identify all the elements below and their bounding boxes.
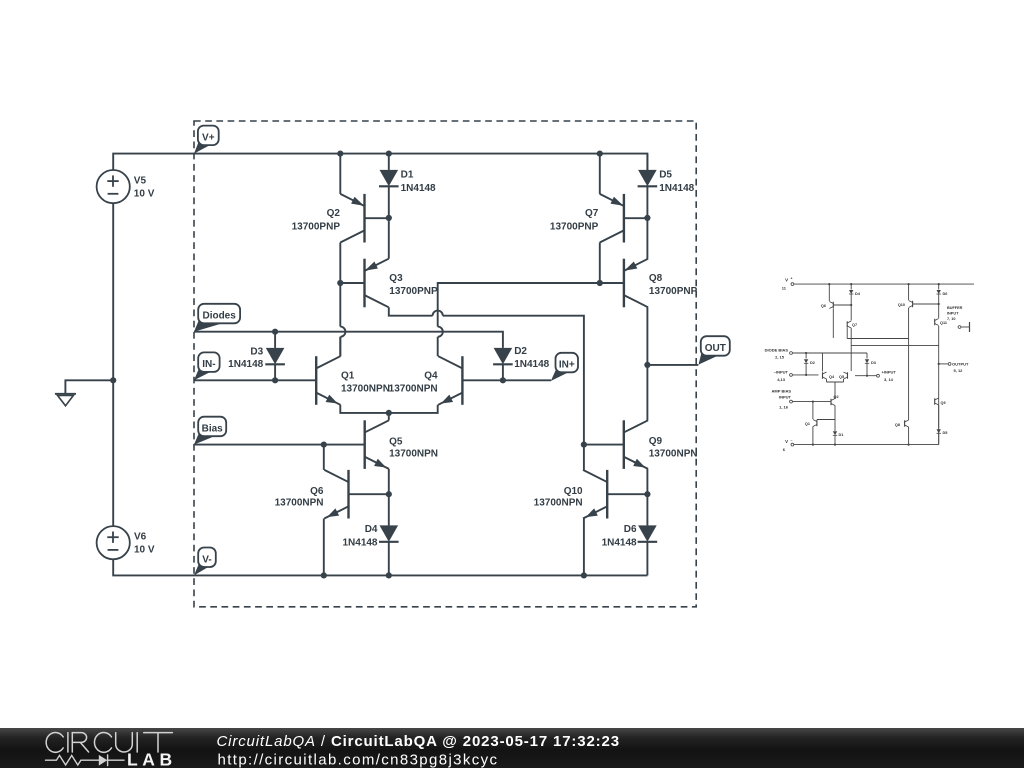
wire Q4 collector to Q8 base <box>437 337 439 356</box>
svg-text:AMP BIAS: AMP BIAS <box>772 389 792 394</box>
wire Q8 collector / output column <box>646 307 648 365</box>
voltage source V6 <box>97 526 130 559</box>
wire Q1 emitter <box>340 405 389 413</box>
svg-text:–: – <box>791 438 793 442</box>
diode D3 <box>274 332 276 348</box>
svg-text:http://circuitlab.com/cn83pg8j: http://circuitlab.com/cn83pg8j3kcyc <box>218 752 499 768</box>
node Q3 base junction <box>337 280 343 286</box>
wire Q1 collector stub <box>339 337 341 356</box>
transistor Q2 <box>363 194 365 243</box>
node OUT <box>644 362 650 368</box>
wire Q1 collector column <box>339 283 341 327</box>
wire Q8 base <box>600 282 624 284</box>
node D3-IN- <box>272 377 278 383</box>
wire Q7 emitter <box>599 154 601 194</box>
svg-text:CircuitLabQA / CircuitLabQA @: CircuitLabQA / CircuitLabQA @ 2023-05-17… <box>217 733 620 750</box>
wire Q4 emitter <box>389 405 438 413</box>
svg-text:LAB: LAB <box>127 750 177 768</box>
inset diode bias <box>790 352 793 355</box>
node Q9e-Q10b-D6 <box>644 491 650 497</box>
node emitter bus <box>386 410 392 416</box>
wire Q8 emitter <box>646 218 648 259</box>
node Q6e-bus <box>321 572 327 578</box>
svg-text:Q2: Q2 <box>834 395 839 399</box>
inset +input <box>877 374 880 377</box>
inset output <box>938 363 940 365</box>
wire Q5 emitter <box>388 469 390 494</box>
node ground tap <box>110 377 116 383</box>
wire Diodes line <box>194 332 503 348</box>
svg-text:+INPUT: +INPUT <box>882 370 897 375</box>
wire Q9 emitter <box>646 469 648 494</box>
transistor Q4 <box>461 356 463 405</box>
svg-text:V: V <box>785 439 788 444</box>
transistor Q10 <box>606 470 608 519</box>
inset Q6 <box>828 284 830 301</box>
inset -input <box>790 374 793 377</box>
wire IN+ <box>462 379 551 381</box>
inset Q4 collector riser <box>822 353 824 372</box>
inset V- rail <box>791 443 794 446</box>
transistor Q1 <box>315 356 317 405</box>
svg-text:V: V <box>785 278 788 283</box>
wire V+ rail <box>113 154 647 171</box>
svg-text:Q5: Q5 <box>839 375 844 379</box>
svg-text:DIODE BIAS: DIODE BIAS <box>765 348 789 353</box>
inset Q10 <box>908 284 910 300</box>
svg-text:D6: D6 <box>943 292 948 296</box>
wire Q6 collector <box>323 445 325 470</box>
wire V5 to V6 <box>112 203 114 526</box>
svg-text:Q7: Q7 <box>852 323 857 327</box>
wire Q7 base <box>624 217 648 219</box>
node D4-bus <box>386 572 392 578</box>
node label V- <box>194 564 209 576</box>
node Bias-Q6 <box>321 442 327 448</box>
wire IN- <box>194 379 316 381</box>
svg-text:D3: D3 <box>871 361 876 365</box>
inset Q7 <box>850 294 852 321</box>
inset V+ rail <box>791 283 794 286</box>
svg-text:Q8: Q8 <box>895 423 900 427</box>
svg-text:3, 14: 3, 14 <box>884 377 894 382</box>
node rail-Q2 <box>337 151 343 157</box>
node rail-D1 <box>386 151 392 157</box>
inset diode D6 <box>938 284 940 289</box>
node rail-Q7 <box>597 151 603 157</box>
node D1-Q2base <box>386 215 392 221</box>
wire V- bottom bus <box>113 559 647 576</box>
node Diodes-D3 <box>272 329 278 335</box>
wire Q7 collector <box>599 243 601 284</box>
svg-text:4,13: 4,13 <box>777 377 786 382</box>
svg-text:Q6: Q6 <box>821 304 826 308</box>
inset Q11 <box>938 294 940 318</box>
voltage source V5 <box>97 170 130 203</box>
inset amp bias <box>790 400 793 403</box>
transistor Q8 <box>623 259 625 308</box>
wire Q3 emitter <box>388 218 390 259</box>
inset D5 <box>937 429 941 433</box>
wire Q9 base <box>584 444 624 446</box>
transistor Q3 <box>363 259 365 308</box>
svg-text:Q11: Q11 <box>940 321 947 325</box>
wire Bias <box>194 444 365 446</box>
inset Q2 <box>830 399 832 405</box>
logo resistor-diode doodle <box>46 755 99 765</box>
node Q8 base junction <box>597 280 603 286</box>
inset Q8 <box>904 420 906 426</box>
ground <box>65 380 113 394</box>
wire Q10 base <box>607 493 647 495</box>
transistor Q6 <box>347 470 349 519</box>
inset D3 <box>866 353 868 359</box>
inset cross wires <box>832 309 834 339</box>
wire Q2 collector chain <box>339 243 341 284</box>
svg-text:OUTPUT: OUTPUT <box>952 362 969 367</box>
inset Q1 <box>812 402 814 419</box>
transistor Q7 <box>623 194 625 243</box>
svg-text:2, 15: 2, 15 <box>775 355 785 360</box>
wire Q5 collector <box>388 413 390 420</box>
dashed subcircuit boundary box <box>194 121 696 607</box>
svg-text:BUFFER: BUFFER <box>947 306 963 310</box>
svg-text:+: + <box>791 277 793 281</box>
node Q9b-Q10c <box>581 442 587 448</box>
transistor Q5 <box>364 420 366 469</box>
svg-text:7, 10: 7, 10 <box>947 317 955 321</box>
svg-text:D2: D2 <box>810 361 815 365</box>
wire Q3 collector to Q9 base column <box>389 307 433 315</box>
svg-text:5, 12: 5, 12 <box>954 368 964 373</box>
node label Bias <box>194 433 216 445</box>
wire Q10 emitter <box>583 519 585 576</box>
wire OUT <box>647 364 698 366</box>
wire Q2 emitter <box>339 154 341 194</box>
svg-text:D4: D4 <box>855 292 861 296</box>
diode D4 <box>388 494 390 525</box>
node label Diodes <box>194 320 224 332</box>
node label IN+ <box>551 369 570 381</box>
wire Q9 collector <box>646 365 648 420</box>
footer bar <box>0 728 1024 768</box>
node D5-Q7base <box>644 215 650 221</box>
node label IN- <box>194 368 211 380</box>
transistor Q9 <box>623 420 625 469</box>
diode D5 <box>646 154 648 170</box>
svg-text:INPUT: INPUT <box>947 312 959 316</box>
wire Q3 base <box>340 282 364 284</box>
svg-text:D5: D5 <box>943 431 948 435</box>
svg-text:D1: D1 <box>839 433 844 437</box>
svg-text:6: 6 <box>783 447 786 452</box>
svg-text:Q1: Q1 <box>805 422 810 426</box>
svg-text:Q9: Q9 <box>941 401 946 405</box>
inset D1 <box>833 431 837 435</box>
svg-text:11: 11 <box>782 286 787 291</box>
inset diff pair Q4 Q5 <box>822 372 824 378</box>
node label V+ <box>194 142 211 154</box>
diode D6 <box>646 494 648 525</box>
wire Q6 emitter <box>323 519 325 576</box>
node Q5e-Q6b-D4 <box>386 491 392 497</box>
inset Q9 <box>934 398 936 404</box>
logo CIRCUIT lettering <box>46 733 63 753</box>
diode D2 <box>502 347 504 349</box>
svg-text:INPUT: INPUT <box>779 395 792 400</box>
node Q10e-bus <box>581 572 587 578</box>
inset diode D4 <box>850 284 852 289</box>
diode D1 <box>388 154 390 170</box>
node label OUT <box>699 352 719 364</box>
svg-text:1, 16: 1, 16 <box>779 405 789 410</box>
node D2-IN+ <box>500 377 506 383</box>
inset D2 <box>805 353 807 359</box>
wire Q6 base <box>349 493 389 495</box>
wire Q10 collector <box>583 445 585 470</box>
wire Q2 base <box>365 217 389 219</box>
svg-text:Q4: Q4 <box>829 375 835 379</box>
svg-text:–INPUT: –INPUT <box>774 370 789 375</box>
svg-text:Q10: Q10 <box>898 303 905 307</box>
